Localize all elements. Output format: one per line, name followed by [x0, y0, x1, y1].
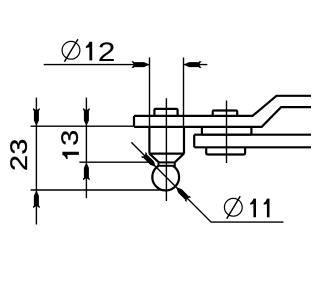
arrow on ball lower-right [174, 185, 191, 202]
arrow 13 bottom [83, 162, 90, 180]
witness line right [183, 58, 185, 128]
lower plate (second arm) [194, 135, 311, 148]
dim line right segment [184, 64, 208, 66]
ball [152, 166, 179, 191]
extension line at flange bottom datum [31, 125, 135, 127]
dimension line 13 [85, 98, 87, 199]
arrow at right witness [184, 61, 202, 68]
arrow 23 top [33, 108, 40, 126]
text 11 [250, 199, 256, 218]
dim line left segment [44, 64, 150, 66]
centerline second joint axis [226, 101, 228, 164]
neck ring [159, 162, 175, 165]
svg-text:3: 3 [5, 139, 32, 155]
spacer washer between plates [202, 127, 252, 134]
svg-text:2: 2 [98, 37, 116, 67]
centerline ball stud axis [165, 98, 167, 201]
svg-text:3: 3 [56, 130, 83, 146]
witness line left [149, 58, 151, 128]
arrow 23 bottom [33, 190, 40, 208]
shank/taper shoulder line [149, 153, 184, 155]
ball stud shank [149, 127, 184, 154]
rivet lower head [206, 147, 245, 154]
45 deg leader through ball [131, 142, 283, 222]
arrow 13 top [83, 108, 90, 126]
arrow at left witness [132, 61, 150, 68]
diameter symbol of Ø11 [224, 196, 242, 219]
text 12 [86, 42, 92, 61]
svg-text:2: 2 [5, 155, 32, 171]
extension line at ball bottom (23) [31, 189, 165, 191]
lever strip (upper plate) with Z-bend [134, 96, 311, 116]
arrow on ball upper-left [141, 152, 158, 169]
rivet head boss B2 on strip at second joint [213, 111, 238, 117]
dimension line 23 [35, 98, 37, 225]
taper cone [149, 154, 184, 163]
extension line at neck (13) [79, 161, 150, 163]
rivet head boss B1 on strip over ball stud [154, 109, 177, 116]
diameter symbol of Ø12 [62, 39, 80, 62]
text 13 rotated [62, 152, 78, 159]
